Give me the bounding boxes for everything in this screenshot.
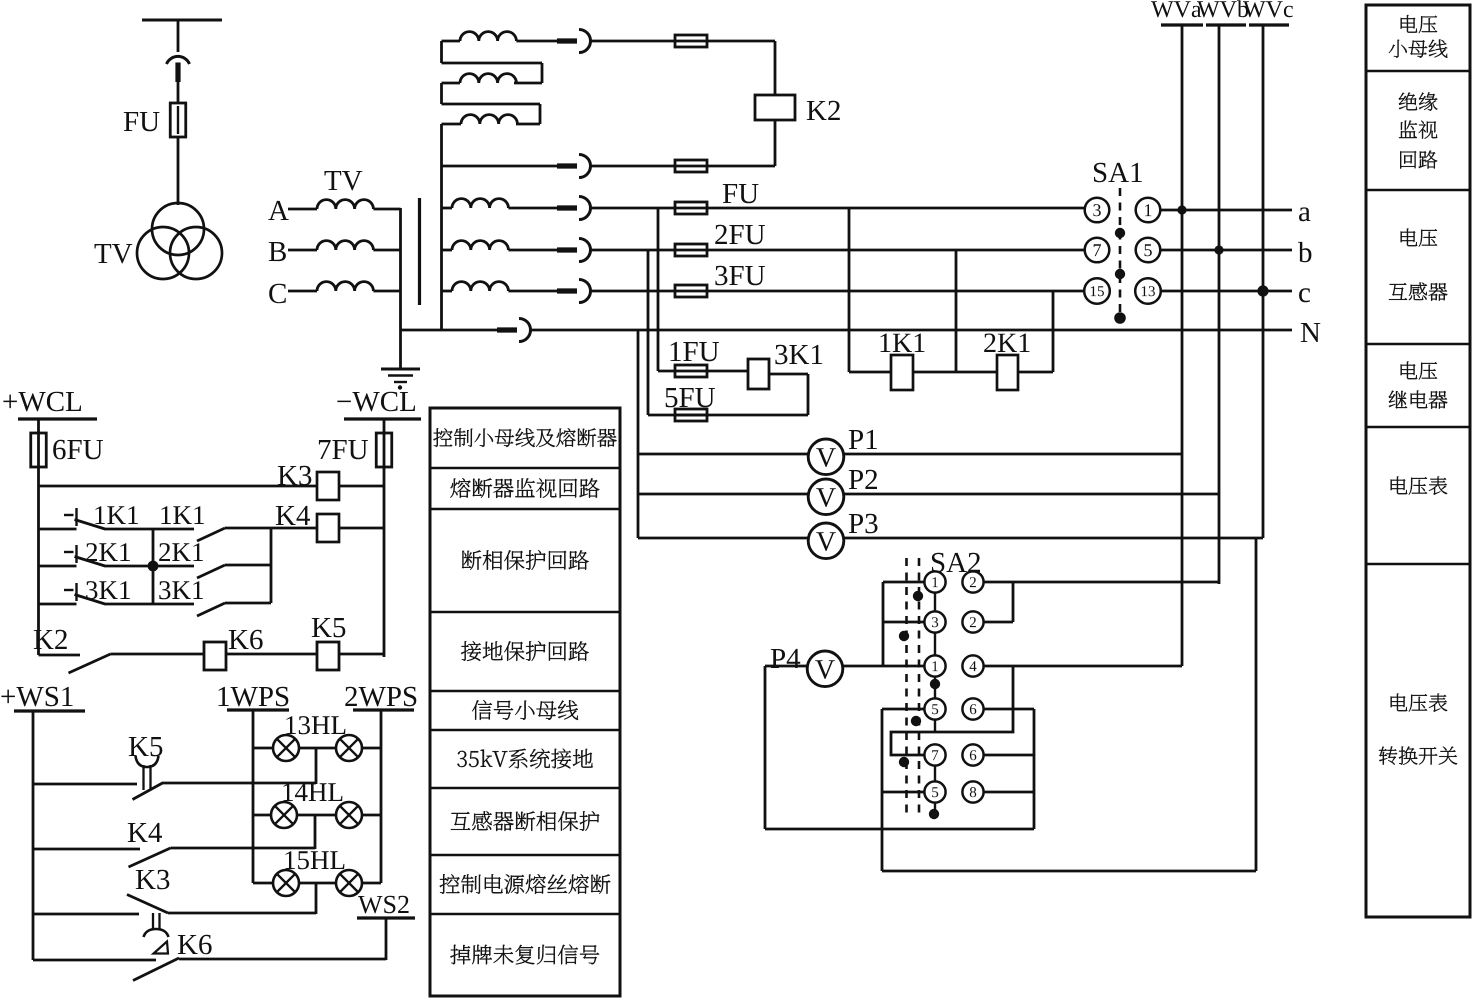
wire C to star point: [373, 290, 400, 293]
switch SA1 cam dot 2: [1115, 269, 1125, 279]
wire P2 row right: [844, 493, 1220, 496]
switch SA2 contact 2 (row2): [962, 611, 983, 632]
wire K2 to aux bottom row: [774, 120, 777, 166]
wire 3K1 row mid: [105, 603, 195, 606]
relay K6 coil: [204, 642, 226, 670]
switch SA2 cam dot a: [913, 591, 923, 601]
lamp 15HL left: [273, 870, 299, 896]
wire W1 to fuse: [590, 40, 707, 43]
contact 1K1 (first): [64, 514, 74, 516]
lamp 13HL right: [336, 735, 362, 761]
wire A lead: [288, 208, 317, 211]
wire aux bottom row: [442, 165, 573, 168]
label a: [1299, 207, 1311, 221]
table middle divider: [430, 787, 620, 790]
fuse aux top: [675, 35, 707, 47]
wire 14HL row a: [253, 814, 271, 817]
contact K4: [129, 848, 171, 867]
voltmeter P1: [808, 439, 844, 475]
wire K4 row left: [39, 528, 77, 531]
wire primary star point: [399, 208, 402, 330]
wire SA2 bottom row to WVc: [882, 870, 1256, 873]
winding W3 aux (open delta): [461, 115, 517, 124]
contact 1K1 (second): [197, 528, 225, 541]
wire K3 row left: [33, 913, 139, 916]
wire 2K1 to c tap: [1018, 371, 1053, 374]
switch SA2 contact 7 (row5): [924, 744, 945, 765]
switch SA2 cam dot d: [911, 716, 921, 726]
wire N row: [530, 329, 1292, 332]
table label 电压: [1401, 229, 1438, 247]
bus WVa bar: [1161, 23, 1203, 26]
table label 断相保护回路: [462, 550, 589, 570]
wire 15HL row a: [253, 882, 273, 885]
wire K3 row right: [339, 485, 384, 488]
switch SA2 contact 1 (row3): [924, 655, 945, 676]
wire W1 left lead: [442, 40, 461, 43]
label P2: [849, 470, 877, 489]
wire 14HL row b: [297, 814, 336, 817]
wire zigzag step 2: [442, 83, 541, 124]
table label 电压: [1401, 15, 1438, 33]
label 6FU: [53, 440, 103, 460]
switch SA2 contact 6 (row4): [962, 698, 983, 719]
junction WVb-b: [1214, 245, 1223, 254]
winding c secondary: [442, 282, 509, 291]
wire P4 left loop: [765, 666, 1034, 829]
junction WVa-a: [1177, 205, 1186, 214]
wire 15HL row b: [299, 882, 336, 885]
wire K6 row right: [179, 958, 386, 961]
voltmeter P3: [808, 523, 844, 559]
voltmeter P4: [807, 651, 843, 687]
table middle divider: [430, 611, 620, 614]
plug connector aux bottom: [557, 163, 577, 168]
table label 互感器: [1389, 283, 1448, 301]
table label 电压表: [1391, 694, 1448, 712]
fuse 1FU: [675, 365, 707, 377]
switch SA2 contact 4 (row3): [962, 655, 983, 676]
label 2WPS: [345, 687, 416, 707]
bus +WS1 bar: [14, 709, 85, 712]
fuse FU (a phase): [675, 202, 707, 214]
table label 接地保护回路: [461, 641, 589, 661]
switch SA2 contact 3 (row2): [924, 611, 945, 632]
fuse FU (primary): [170, 103, 186, 137]
wire P3 row right: [844, 537, 1264, 540]
label SA2: [932, 553, 980, 573]
wire K3 row right: [168, 912, 316, 915]
winding W1 aux (open delta): [460, 32, 516, 41]
switch SA2 cam dot f: [929, 809, 939, 819]
wire a tap to relay row: [849, 208, 891, 372]
wire 35kV busbar tap: [142, 19, 222, 22]
table label 掉牌未复归信号: [450, 945, 599, 965]
wire 13HL row a: [253, 747, 273, 750]
wire P1 row left: [638, 453, 809, 456]
wire 2WPS drop: [380, 710, 383, 883]
junction mid rail dot: [148, 561, 159, 572]
switch SA2 contact 5 (row4): [924, 698, 945, 719]
switch SA1 contact 15: [1084, 278, 1110, 304]
table right divider: [1366, 70, 1470, 73]
wire SA2 jumper 4-5-7: [891, 666, 1013, 755]
wire a to plug: [508, 207, 572, 210]
winding B primary: [317, 241, 373, 250]
label 2K1: [984, 334, 1029, 353]
label 2K1 (contact b): [159, 543, 203, 561]
wire -WCL drop: [383, 419, 386, 657]
wire W3 left lead: [442, 123, 462, 126]
plug connector W1: [557, 38, 577, 43]
contact K3 (signal flag): [127, 895, 168, 914]
wire W2 right stub: [514, 82, 542, 85]
wire P2 row left: [638, 493, 809, 496]
label WVa: [1151, 1, 1201, 17]
wire +WCL drop: [37, 419, 40, 655]
plug connector c: [557, 288, 577, 293]
wire a phase to SA1 contact 3: [707, 207, 1086, 210]
wire 13HL row b: [299, 747, 336, 750]
contact K6: [133, 958, 179, 981]
switch SA2 contact 5 (row6): [924, 781, 945, 802]
wire bus WVb drop: [1218, 25, 1221, 584]
table label 绝缘: [1399, 92, 1438, 110]
wire W1 fuse to K2: [707, 41, 776, 95]
label P3: [849, 514, 878, 534]
contact 2K1 (second): [197, 565, 225, 578]
switch SA1 cam shaft (dashed): [1119, 188, 1122, 322]
label phase C: [269, 284, 286, 304]
wire fuse to TV: [177, 137, 180, 205]
junction WVc-c: [1257, 285, 1268, 296]
wire SA2 contact4 to bus WVa: [984, 665, 1183, 668]
label 3K1 (contact b): [159, 581, 203, 599]
wire P3 row left: [638, 537, 809, 540]
fuse 2FU: [675, 244, 707, 256]
wire K3 row left: [39, 485, 318, 488]
table middle divider: [430, 467, 620, 470]
label 3K1 (contact a): [86, 581, 130, 599]
wire 1FU row: [658, 370, 707, 373]
label SA1: [1094, 163, 1142, 183]
table label 电压: [1401, 362, 1438, 380]
label 15HL: [285, 851, 344, 869]
wire K4 row right: [171, 847, 316, 850]
table right divider: [1366, 343, 1470, 346]
wire N row start: [401, 329, 514, 332]
winding A primary: [317, 200, 373, 209]
table middle frame: [430, 408, 620, 996]
bus 1WPS bar: [227, 708, 289, 711]
wire 14HL to K4 contact: [314, 815, 317, 849]
label 3FU: [715, 266, 765, 286]
lamp 15HL right: [336, 870, 362, 896]
wire right rail contacts: [270, 528, 273, 603]
table label 35kV系统接地: [457, 749, 592, 769]
label 2K1 (contact a): [86, 543, 130, 561]
contact K2: [69, 654, 111, 673]
table label 熔断器监视回路: [450, 478, 599, 498]
switch SA2 cam dot c: [930, 679, 940, 689]
table label 控制电源熔丝熔断: [440, 874, 611, 894]
plug connector b: [557, 247, 577, 252]
lamp 14HL left: [271, 802, 297, 828]
label K2: [807, 101, 840, 120]
wire K4 row right: [339, 527, 384, 530]
switch SA2 cam dot b: [899, 631, 909, 641]
wire feeder to fuse: [177, 82, 180, 102]
wire b tap down: [955, 250, 958, 372]
wire c tap down: [1052, 291, 1055, 372]
switch SA1 contact 1: [1136, 198, 1161, 223]
label c: [1299, 288, 1310, 302]
table label 信号小母线: [472, 700, 578, 720]
bus -WCL bar: [344, 417, 421, 420]
table label 控制小母线及熔断器: [433, 428, 616, 447]
label K5 (relay): [312, 618, 346, 637]
lamp 13HL left: [273, 735, 299, 761]
switch SA2 contact 1 (row1): [924, 571, 945, 592]
fuse 5FU: [675, 409, 707, 421]
wire 13HL to K5 contact: [315, 748, 318, 784]
label K2 (contact): [34, 630, 67, 649]
wire SA2 rows1-2 left rail: [883, 582, 925, 666]
contact 2K1 (first): [64, 551, 74, 553]
wire W2 left lead: [442, 82, 461, 85]
wire 15HL to K3 contact: [315, 883, 318, 914]
relay 1K1 coil: [891, 355, 913, 390]
wire K5 row right: [162, 782, 316, 785]
wire 1FU to 3K1: [707, 370, 749, 373]
label P1: [849, 430, 877, 449]
label K6 (relay): [229, 630, 263, 650]
fuse 6FU: [31, 433, 47, 467]
wire 3K1 to 5FU: [676, 374, 809, 415]
wire SA2 contact6 row5 to P4 rail: [984, 754, 1035, 757]
transformer TV (three-phase, 3 circles): [137, 203, 222, 279]
fuse aux bottom: [675, 160, 707, 172]
switch SA2 stub 1-3: [934, 593, 936, 612]
table label 转换开关: [1379, 746, 1457, 764]
wire K5 coil right: [339, 653, 384, 656]
wire K4 row to coil: [225, 527, 317, 530]
wire star to ground: [399, 330, 402, 369]
wire K6 row left: [33, 959, 156, 962]
wire aux bottom to fuse: [590, 165, 707, 168]
wire K2 contact to K6 coil: [111, 653, 205, 656]
wire SA1-13 to bus c: [1160, 290, 1292, 293]
label 1FU: [671, 342, 720, 361]
wire zigzag step 1: [442, 41, 543, 83]
wire WS2 drop: [385, 918, 388, 960]
wire c to 3FU: [590, 290, 707, 293]
label K3 (relay): [278, 466, 312, 486]
wire K5 row left: [33, 783, 137, 786]
table label 互感器断相保护: [451, 811, 600, 831]
bus WS2 bar: [357, 916, 415, 919]
switch SA1 cam dot 3: [1114, 312, 1126, 324]
relay K5 coil: [317, 642, 339, 670]
switch SA1 contact 3: [1085, 198, 1110, 223]
table middle divider: [430, 913, 620, 916]
label TV: [95, 244, 133, 263]
plug connector N: [497, 327, 517, 332]
wire 3K1 row right: [225, 602, 271, 605]
winding W2 aux (open delta): [460, 74, 516, 83]
label 1K1 (contact b): [161, 506, 204, 524]
wire K6 to K5 coil: [226, 653, 317, 656]
label phase B: [269, 242, 286, 261]
wire aux fuse to K2: [707, 165, 776, 168]
wire 5FU to b tap: [648, 250, 707, 415]
switch SA1 contact 5: [1136, 238, 1161, 263]
wire SA2 contact2 to bus WVb: [984, 581, 1220, 584]
label WVb: [1197, 0, 1248, 17]
wire A to star point: [373, 208, 400, 211]
table label 回路: [1400, 151, 1437, 169]
table label 小母线: [1389, 40, 1448, 58]
wire 2K1 row right: [225, 564, 271, 567]
wire feeder drop: [177, 20, 180, 52]
label 2FU: [715, 225, 765, 245]
wire secondary left rail: [440, 124, 443, 330]
ground (TV neutral): [381, 369, 420, 390]
label 1WPS: [219, 687, 289, 707]
wire B lead: [288, 249, 317, 252]
label phase A: [268, 201, 288, 220]
wire c to plug: [508, 290, 572, 293]
table label 电压表: [1391, 477, 1448, 495]
switch SA2 stub 3-1: [934, 633, 936, 656]
lamp 14HL right: [336, 802, 362, 828]
wire K4 row mid: [105, 528, 195, 531]
table middle divider: [430, 729, 620, 732]
contact 3K1 (second): [197, 603, 225, 616]
label +WCL: [3, 392, 81, 412]
wire SA1-5 to bus b: [1160, 249, 1292, 252]
label K4 (relay): [276, 506, 310, 525]
switch SA2 stub 7-5: [934, 766, 936, 782]
label WVc: [1243, 1, 1293, 17]
wire SA2 rows4-6 left rail (c phase): [882, 709, 925, 871]
bus WVb bar: [1206, 23, 1246, 26]
table middle divider: [430, 508, 620, 511]
wire P1 row right: [844, 453, 1183, 456]
wire bus WVa drop: [1181, 25, 1184, 666]
contact K5 (signal flag): [133, 783, 163, 800]
relay K3 coil: [317, 472, 339, 500]
wire 1K1 to b tap: [913, 371, 997, 374]
label -WCL: [337, 392, 415, 412]
table middle divider: [430, 854, 620, 857]
voltmeter P2: [808, 479, 844, 515]
wire W1 to plug: [516, 40, 572, 43]
fuse 3FU: [675, 285, 707, 297]
bus WVc bar: [1249, 23, 1289, 26]
label K6 (contact): [178, 935, 212, 955]
winding C primary: [317, 282, 373, 291]
label 1K1 (contact a): [95, 506, 137, 524]
fuse 7FU: [376, 433, 392, 467]
wire a to FU: [590, 207, 707, 210]
label 3K1: [775, 345, 822, 365]
switch SA1 cam dot 1: [1115, 228, 1125, 238]
plug connector feeder: [175, 63, 180, 83]
label b: [1298, 242, 1311, 262]
wire 2K1 row mid: [105, 565, 195, 568]
label FU (a phase): [723, 184, 759, 203]
wire +WS1 drop: [32, 712, 35, 960]
switch SA2 stub 1-5 with cam dot: [934, 677, 936, 699]
wire N tap for meters: [637, 330, 640, 538]
contact 3K1 (first): [64, 589, 74, 591]
label 5FU: [666, 388, 715, 407]
label K5 (contact): [129, 737, 163, 756]
table label 监视: [1399, 121, 1437, 139]
wire b to 2FU: [590, 249, 707, 252]
wire SA2 contacts 2-2 bracket: [984, 582, 1014, 622]
label 13HL: [286, 716, 345, 734]
wire c phase to SA1 contact 15: [707, 290, 1086, 293]
wire SA1-1 to bus a: [1160, 209, 1292, 212]
wire 15HL row c: [362, 882, 381, 885]
table right divider: [1366, 189, 1470, 192]
wire 13HL row c: [362, 747, 381, 750]
relay K4 coil: [317, 514, 339, 542]
bus +WCL bar: [18, 417, 97, 420]
wire 14HL row c: [362, 814, 381, 817]
switch SA2 cam dot e: [899, 757, 909, 767]
wire SA2 contact8 to P4 rail: [984, 791, 1035, 794]
wire 1WPS drop: [252, 710, 255, 883]
bus 2WPS bar: [353, 708, 414, 711]
switch SA2 contact 6 (row5): [962, 744, 983, 765]
relay 2K1 coil: [997, 355, 1018, 390]
wire 3K1 row left: [39, 603, 77, 606]
wire W3 right stub: [516, 123, 540, 126]
switch SA2 contact 2 (row1): [962, 571, 983, 592]
wire B to star point: [373, 249, 400, 252]
table label 继电器: [1389, 391, 1448, 409]
wire b phase to SA1 contact 7: [707, 249, 1086, 252]
transformer core: [418, 198, 421, 305]
label N: [1301, 323, 1321, 342]
plug connector a: [557, 205, 577, 210]
label FU: [124, 112, 160, 131]
relay 3K1 coil: [748, 359, 769, 389]
relay K2 coil: [755, 95, 795, 120]
table right frame: [1366, 5, 1470, 917]
winding b secondary: [442, 241, 509, 250]
wire b to plug: [508, 249, 572, 252]
wire a tap to 1FU: [657, 208, 660, 371]
table right divider: [1366, 426, 1470, 429]
wire bus WVc drop: [1256, 25, 1263, 871]
wire mid rail: [152, 529, 155, 604]
label TV (winding unit): [325, 171, 363, 190]
contact K6 delay triangle: [154, 942, 169, 954]
wire C lead: [288, 290, 317, 293]
table right divider: [1366, 563, 1470, 566]
label K4 (contact): [128, 823, 162, 842]
label P4: [771, 649, 800, 668]
switch SA1 contact 7: [1085, 238, 1110, 263]
winding a secondary: [442, 199, 509, 208]
wire SA2 contact6 row4 to P4 rail: [984, 709, 1035, 829]
switch SA1 contact 13: [1135, 278, 1161, 304]
wire 2K1 row left: [39, 565, 77, 568]
